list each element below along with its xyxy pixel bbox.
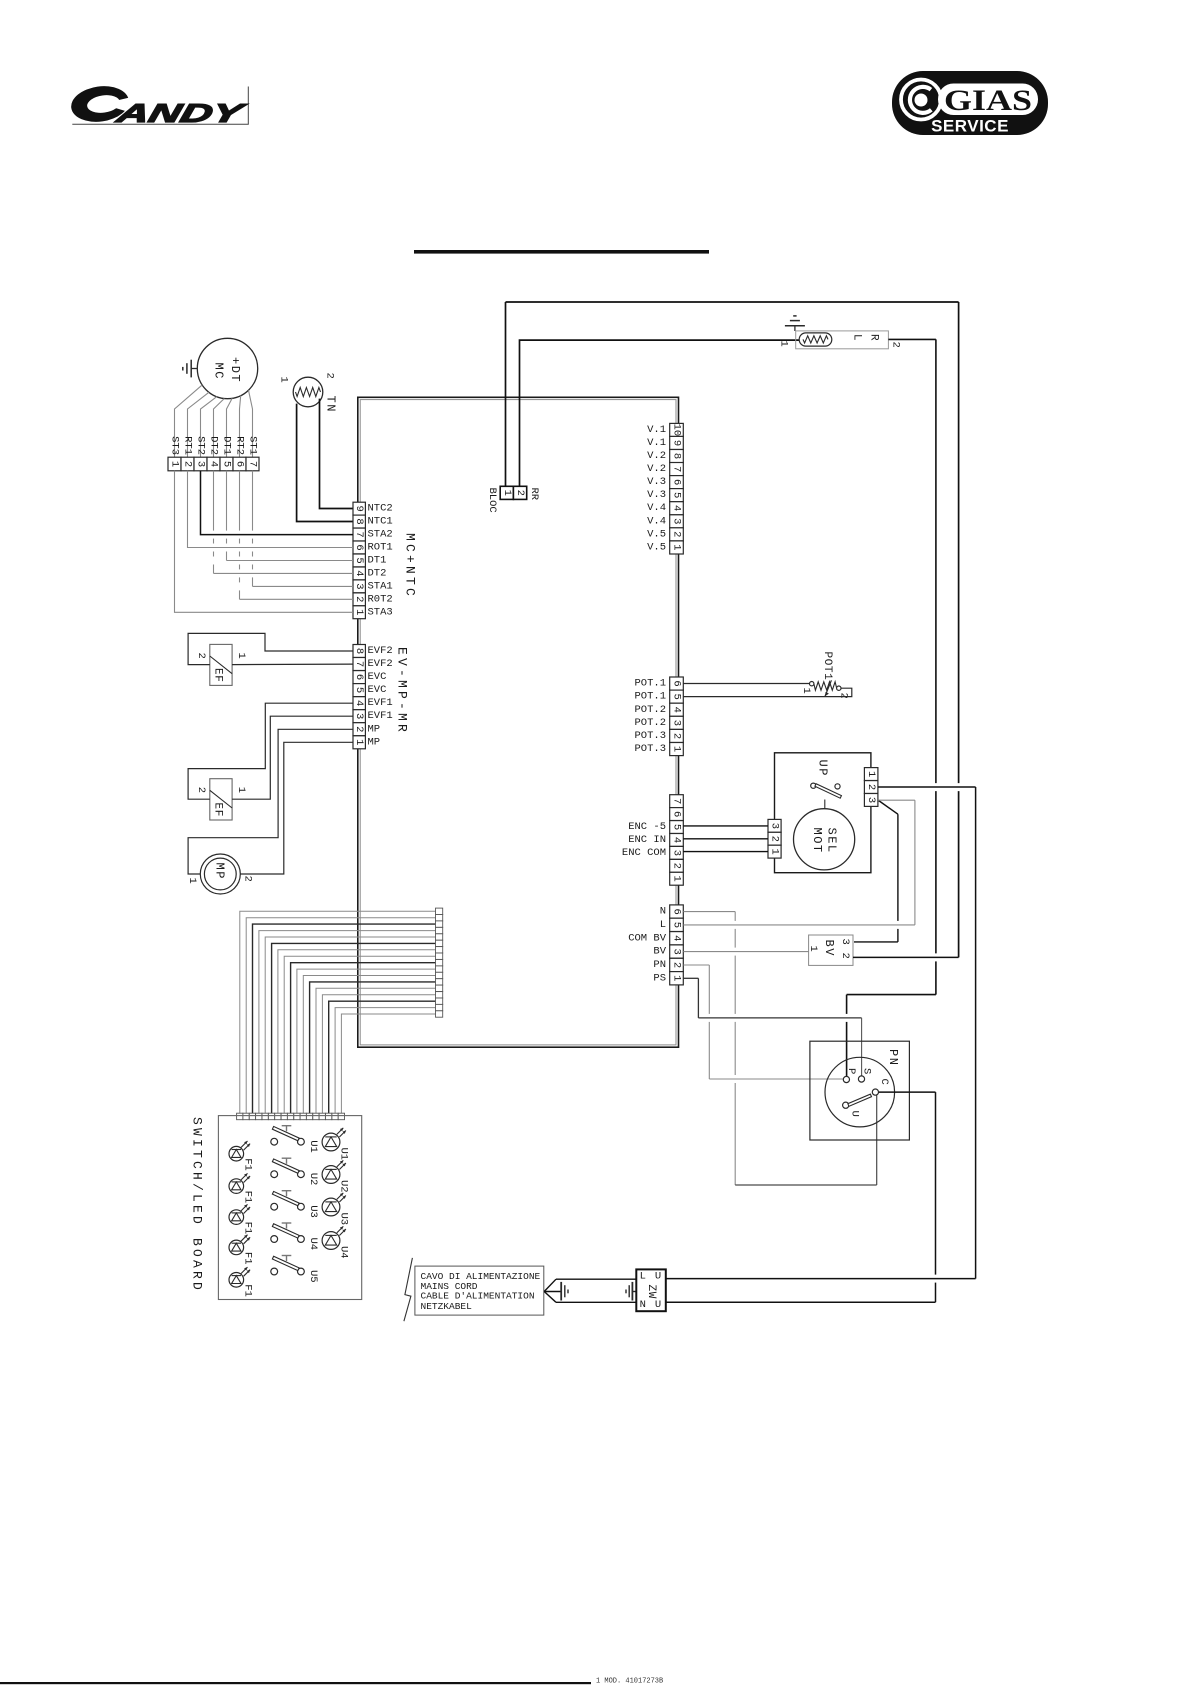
svg-text:POT.3: POT.3: [634, 743, 666, 755]
svg-text:NETZKABEL: NETZKABEL: [421, 1301, 473, 1312]
wire SEL MOT pin3 to BV pin3: [854, 800, 898, 942]
svg-text:9: 9: [353, 506, 365, 512]
LED F1 lamp 1: [229, 1141, 250, 1161]
svg-text:1: 1: [671, 975, 683, 981]
wire MC to pin 7: [249, 390, 253, 457]
wire R pin2 to PN P terminal: [847, 339, 936, 1076]
connector PN: [810, 1041, 910, 1140]
svg-text:U: U: [655, 1271, 661, 1283]
svg-text:UP: UP: [816, 760, 830, 777]
ribbon wire 6: [272, 943, 436, 1113]
connector N L COM-BV BV PN PS pins 6-1: [670, 905, 684, 985]
svg-text:1: 1: [169, 461, 181, 467]
svg-text:U1: U1: [338, 1148, 350, 1161]
svg-text:6: 6: [353, 674, 365, 680]
svg-text:PN: PN: [653, 959, 666, 971]
svg-text:2: 2: [671, 863, 683, 869]
svg-text:RT2: RT2: [234, 436, 246, 455]
svg-text:3: 3: [353, 713, 365, 719]
svg-text:STA3: STA3: [368, 606, 393, 618]
svg-text:EVC: EVC: [368, 671, 387, 683]
LED F1 lamp 2: [229, 1173, 250, 1193]
svg-text:V.2: V.2: [647, 463, 666, 475]
svg-text:5: 5: [353, 687, 365, 693]
svg-text:8: 8: [353, 648, 365, 654]
svg-text:1: 1: [807, 946, 819, 952]
svg-text:10: 10: [671, 424, 683, 437]
svg-text:GIAS: GIAS: [944, 84, 1032, 117]
svg-text:3: 3: [671, 518, 683, 524]
wire EF2 to EVF1 pin3: [232, 716, 353, 799]
svg-text:BV: BV: [822, 940, 836, 957]
svg-text:V.3: V.3: [647, 489, 666, 501]
svg-text:5: 5: [671, 492, 683, 498]
resistor R L: [796, 331, 889, 349]
svg-text:1: 1: [353, 739, 365, 745]
svg-text:F1: F1: [242, 1158, 254, 1171]
svg-text:7: 7: [353, 531, 365, 537]
svg-text:7: 7: [353, 661, 365, 667]
svg-text:2: 2: [514, 490, 526, 496]
svg-text:POT.2: POT.2: [634, 717, 666, 729]
svg-text:NTC1: NTC1: [368, 516, 393, 528]
LED F1 lamp 4: [229, 1235, 250, 1255]
svg-text:DT1: DT1: [221, 436, 233, 455]
svg-text:POT.1: POT.1: [634, 678, 666, 690]
wire MC to pin 1: [175, 385, 203, 457]
wire ST1 to STA1: [253, 471, 354, 587]
svg-text:PS: PS: [653, 972, 666, 984]
svg-text:U5: U5: [307, 1270, 319, 1283]
svg-text:V.5: V.5: [647, 528, 666, 540]
svg-text:S: S: [861, 1068, 873, 1074]
svg-text:MP: MP: [368, 723, 381, 735]
wire PN C to ZW N: [665, 1092, 936, 1302]
svg-text:1: 1: [501, 490, 513, 496]
svg-text:V.2: V.2: [647, 450, 666, 462]
svg-text:L: L: [851, 334, 863, 341]
ground at R: [785, 316, 805, 331]
connector ST pins 1-7: [168, 457, 259, 471]
svg-text:7: 7: [247, 461, 259, 467]
svg-text:2: 2: [769, 836, 781, 842]
wire ZW L horizontal: [665, 1278, 976, 1280]
mains cord text box: [415, 1266, 544, 1315]
svg-text:1: 1: [235, 653, 247, 659]
Candy logo: [69, 83, 250, 128]
connector ENC pins 7-1: [670, 795, 684, 886]
svg-text:U: U: [849, 1111, 861, 1117]
wire EF1 to EVF2 pin7: [232, 663, 353, 666]
svg-text:POT.1: POT.1: [634, 691, 666, 703]
svg-text:EVF1: EVF1: [368, 710, 393, 722]
svg-text:MC+NTC: MC+NTC: [403, 533, 418, 599]
svg-text:2: 2: [838, 693, 850, 699]
switch U5: [271, 1256, 304, 1275]
svg-text:U2: U2: [338, 1180, 350, 1193]
svg-text:U2: U2: [307, 1173, 319, 1186]
svg-text:NTC2: NTC2: [368, 503, 393, 515]
svg-text:+DT: +DT: [228, 357, 242, 383]
svg-text:2: 2: [353, 596, 365, 602]
svg-text:L: L: [660, 919, 666, 931]
svg-text:DT2: DT2: [208, 436, 220, 455]
svg-text:4: 4: [208, 461, 220, 467]
svg-text:V.1: V.1: [647, 437, 666, 449]
svg-text:ENC COM: ENC COM: [622, 847, 666, 859]
ribbon wire 12: [310, 982, 436, 1113]
GIAS Service logo: [892, 71, 1048, 136]
wire MC to pin 6: [240, 396, 241, 458]
wire ENC COM to 1: [683, 851, 768, 853]
wire DT1 to DT1: [227, 471, 354, 561]
wire PS to PN S: [683, 978, 861, 1076]
svg-text:1 MOD. 41017273B: 1 MOD. 41017273B: [596, 1678, 663, 1685]
svg-text:2: 2: [865, 784, 877, 790]
svg-text:5: 5: [353, 557, 365, 563]
svg-text:7: 7: [671, 798, 683, 804]
switch U3: [271, 1191, 304, 1210]
svg-text:EF: EF: [212, 803, 224, 817]
main board inner rectangle: [360, 400, 676, 1045]
wire N to PN C: [683, 912, 876, 1185]
svg-text:1: 1: [278, 377, 290, 383]
motor MC: [197, 338, 257, 398]
svg-text:V.5: V.5: [647, 541, 666, 553]
potentiometer POT1: [810, 680, 842, 696]
wire SEL MOT pin2 to ZW L: [878, 787, 976, 1279]
svg-text:F1: F1: [242, 1252, 254, 1265]
thermistor TN: [293, 377, 323, 407]
svg-text:5: 5: [221, 461, 233, 467]
svg-text:1: 1: [800, 688, 812, 694]
svg-text:4: 4: [671, 505, 683, 511]
svg-text:6: 6: [671, 479, 683, 485]
svg-text:BLOC: BLOC: [486, 488, 498, 513]
wire TN pin1 to NTC1: [297, 404, 353, 522]
svg-text:8: 8: [671, 453, 683, 459]
svg-text:2: 2: [182, 461, 194, 467]
svg-text:2: 2: [195, 787, 207, 793]
svg-text:2: 2: [671, 962, 683, 968]
wire ST3 to STA3: [175, 471, 354, 613]
svg-text:EVC: EVC: [368, 684, 387, 696]
svg-text:EF: EF: [212, 668, 224, 682]
ground at cord right: [626, 1282, 636, 1301]
LED U3 lamp: [322, 1193, 346, 1216]
ribbon wire 16: [335, 1008, 435, 1114]
wire BV2 to RR net: [853, 956, 959, 958]
wire RR pin2 to resistor R: [520, 340, 800, 486]
svg-text:MC: MC: [212, 363, 226, 380]
svg-text:5: 5: [671, 922, 683, 928]
svg-text:PN: PN: [886, 1049, 900, 1066]
wire EVF1 pin4 to EF2: [188, 703, 353, 799]
svg-text:1: 1: [235, 787, 247, 793]
main board outer rectangle: [358, 397, 679, 1047]
ribbon wire 5: [265, 937, 435, 1113]
svg-text:TN: TN: [324, 396, 338, 413]
wire MC to pin 3: [201, 397, 217, 458]
svg-text:1: 1: [353, 609, 365, 615]
ribbon wire 7: [278, 950, 436, 1113]
wire DT2 to DT2: [214, 471, 354, 574]
svg-text:COM BV: COM BV: [628, 932, 667, 944]
ribbon wire 11: [303, 976, 435, 1114]
svg-text:2: 2: [353, 726, 365, 732]
svg-text:V.3: V.3: [647, 476, 666, 488]
svg-text:1: 1: [186, 878, 198, 884]
LED U4 lamp: [322, 1226, 346, 1249]
svg-text:2: 2: [671, 733, 683, 739]
wire RT2 to R0T2: [240, 471, 354, 600]
svg-text:U4: U4: [307, 1238, 319, 1251]
connector RR BLOC: [500, 486, 527, 499]
svg-text:3: 3: [195, 461, 207, 467]
svg-text:4: 4: [671, 707, 683, 713]
wire PN to PN P: [683, 965, 843, 1079]
selector motor box SEL MOT: [775, 753, 871, 873]
svg-text:4: 4: [671, 935, 683, 941]
component BV: [809, 935, 853, 965]
svg-text:6: 6: [353, 544, 365, 550]
svg-text:DT2: DT2: [368, 567, 387, 579]
switch U4: [271, 1223, 304, 1242]
svg-text:EV-MP-MR: EV-MP-MR: [395, 647, 410, 735]
connector ZW: [636, 1269, 666, 1311]
switch UP: [811, 783, 842, 808]
motor MP: [200, 854, 240, 894]
inline connector strip: [436, 908, 443, 1017]
LED F1 lamp 3: [229, 1204, 250, 1224]
svg-text:1: 1: [769, 848, 781, 854]
svg-text:2: 2: [671, 531, 683, 537]
svg-text:P: P: [845, 1068, 857, 1074]
svg-text:R: R: [868, 334, 880, 341]
connector 1 2 3 at SEL MOT: [864, 768, 878, 807]
svg-text:V.4: V.4: [647, 502, 666, 514]
svg-text:5: 5: [671, 824, 683, 830]
wire MP pin2 to MP motor: [188, 729, 353, 874]
LED U2 lamp: [322, 1160, 346, 1183]
relay EF1: [210, 644, 232, 685]
ribbon wire 8: [284, 956, 435, 1113]
ribbon wire 2: [246, 918, 435, 1113]
svg-text:ST1: ST1: [247, 436, 259, 455]
svg-text:ENC IN: ENC IN: [628, 834, 666, 846]
svg-text:C: C: [878, 1079, 890, 1085]
svg-text:1: 1: [671, 746, 683, 752]
svg-text:F1: F1: [242, 1222, 254, 1235]
wire RR pin1 to BV pin2 net: [506, 302, 959, 957]
connector V pins 10-1: [670, 423, 684, 554]
ribbon wire 1: [240, 911, 436, 1113]
switch board connector strip: [237, 1113, 345, 1120]
ribbon wire 17: [341, 1014, 435, 1113]
svg-text:DT1: DT1: [368, 555, 387, 567]
svg-text:SEL: SEL: [825, 828, 839, 854]
switch U2: [271, 1158, 304, 1177]
SWITCH/LED board outline: [218, 1116, 361, 1300]
svg-text:U1: U1: [307, 1140, 319, 1153]
switch U1: [271, 1126, 304, 1145]
svg-text:STA1: STA1: [368, 580, 393, 592]
ribbon wire 14: [322, 995, 435, 1113]
svg-text:L: L: [640, 1271, 646, 1283]
svg-text:1: 1: [777, 341, 789, 347]
svg-text:4: 4: [353, 570, 365, 576]
ground at MC: [183, 360, 198, 378]
svg-text:2: 2: [242, 876, 254, 882]
svg-text:STA2: STA2: [368, 529, 393, 541]
svg-text:ENC -5: ENC -5: [628, 821, 666, 833]
ribbon wire 9: [291, 963, 436, 1113]
connector 3 2 1 at SEL MOT: [768, 819, 781, 858]
svg-text:U3: U3: [338, 1213, 350, 1226]
svg-text:ZW: ZW: [645, 1285, 657, 1299]
wire POT1 to POT.1 pin5: [683, 688, 852, 696]
ribbon wire 15: [329, 1001, 436, 1113]
svg-text:3: 3: [671, 720, 683, 726]
connector MC+NTC pins 9-1: [353, 502, 365, 619]
svg-text:MP: MP: [368, 736, 381, 748]
svg-text:POT1: POT1: [821, 652, 833, 681]
svg-text:6: 6: [671, 680, 683, 686]
connector POT pins 6-1: [670, 677, 684, 756]
wire ENC-5 to 3: [683, 825, 768, 827]
wire RT1 to ROT1: [188, 471, 354, 548]
svg-text:N: N: [640, 1299, 646, 1311]
mains cord lines with arrow: [544, 1279, 636, 1302]
svg-text:2: 2: [890, 342, 902, 348]
svg-text:ST2: ST2: [195, 436, 207, 455]
svg-text:4: 4: [671, 837, 683, 843]
wire ENC IN to 2: [683, 838, 768, 840]
ground at cord left: [561, 1282, 568, 1301]
svg-text:3: 3: [671, 850, 683, 856]
svg-text:3: 3: [839, 939, 851, 945]
svg-text:SWITCH/LED BOARD: SWITCH/LED BOARD: [190, 1117, 205, 1293]
svg-text:MOT: MOT: [810, 828, 824, 854]
svg-text:9: 9: [671, 440, 683, 446]
svg-text:F1: F1: [242, 1191, 254, 1204]
LED F1 lamp 5: [229, 1267, 250, 1287]
svg-text:POT.2: POT.2: [634, 704, 666, 716]
svg-text:V.4: V.4: [647, 515, 666, 527]
svg-text:3: 3: [671, 948, 683, 954]
svg-text:3: 3: [769, 823, 781, 829]
svg-text:U4: U4: [338, 1246, 350, 1259]
svg-text:R0T2: R0T2: [368, 593, 393, 605]
svg-text:POT.3: POT.3: [634, 730, 666, 742]
relay EF2: [210, 779, 232, 820]
svg-text:4: 4: [353, 700, 365, 706]
svg-text:BV: BV: [653, 946, 666, 958]
wire MC to pin 4: [214, 399, 225, 458]
wire TN pin2 to NTC2: [320, 399, 354, 509]
wire ST2 to STA2: [201, 471, 354, 535]
svg-text:ANDY: ANDY: [112, 98, 249, 128]
svg-text:6: 6: [234, 461, 246, 467]
wire MC to pin 2: [188, 392, 209, 457]
svg-text:6: 6: [671, 908, 683, 914]
title underline: [414, 250, 709, 254]
svg-text:F1: F1: [242, 1284, 254, 1297]
svg-text:EVF2: EVF2: [368, 645, 393, 657]
svg-text:2: 2: [195, 653, 207, 659]
svg-text:7: 7: [671, 466, 683, 472]
svg-text:2: 2: [839, 953, 851, 959]
ribbon wire 10: [297, 969, 436, 1113]
svg-text:ST3: ST3: [169, 436, 181, 455]
svg-text:6: 6: [671, 811, 683, 817]
svg-text:8: 8: [353, 518, 365, 524]
svg-text:V.1: V.1: [647, 424, 666, 436]
svg-text:5: 5: [671, 693, 683, 699]
svg-text:3: 3: [865, 797, 877, 803]
wire SEL MOT pin3 to L: [683, 800, 915, 925]
ribbon wire 13: [316, 988, 436, 1113]
svg-text:3: 3: [353, 583, 365, 589]
svg-text:1: 1: [865, 771, 877, 777]
svg-text:U3: U3: [307, 1205, 319, 1218]
wire MP motor to MP pin1: [240, 742, 353, 874]
svg-text:EVF1: EVF1: [368, 697, 393, 709]
cable break mark: [404, 1258, 413, 1321]
svg-text:RR: RR: [528, 488, 540, 501]
wire MC to pin 5: [227, 398, 233, 457]
motor SEL MOT: [794, 809, 855, 870]
svg-text:1: 1: [671, 544, 683, 550]
wire BV pin to BV box: [683, 951, 808, 953]
svg-text:U: U: [655, 1299, 661, 1311]
connector EV-MP-MR pins 8-1: [353, 645, 365, 749]
footer rule: [0, 1682, 591, 1684]
svg-text:N: N: [660, 906, 666, 918]
svg-text:SERVICE: SERVICE: [931, 117, 1009, 136]
ribbon wire 3: [253, 924, 436, 1113]
svg-text:1: 1: [671, 876, 683, 882]
svg-text:RT1: RT1: [182, 436, 194, 455]
LED U1 lamp: [322, 1128, 346, 1151]
svg-text:MP: MP: [213, 863, 227, 880]
wire EVF2 pin8 to EF1: [188, 633, 353, 664]
svg-text:EVF2: EVF2: [368, 658, 393, 670]
ribbon wire 4: [259, 931, 436, 1114]
svg-text:ROT1: ROT1: [368, 542, 393, 554]
wire POT.1 pin6 to POT1: [683, 683, 809, 685]
svg-text:2: 2: [324, 373, 336, 379]
